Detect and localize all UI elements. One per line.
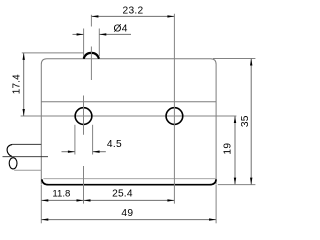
dimension 11.8 line: [41, 199, 83, 201]
hole H1 left: [75, 108, 92, 125]
dimension 25.4 line: [84, 199, 175, 201]
body inner horizontal line: [41, 101, 216, 103]
dimension d4 arrows: [73, 33, 84, 35]
dimension 35 line: [250, 59, 252, 185]
dimension 17.4 extension line top: [22, 52, 84, 54]
svg-text:Ø4: Ø4: [113, 24, 127, 35]
dimension 49 line: [41, 219, 216, 221]
svg-text:23.2: 23.2: [122, 6, 143, 17]
left pin top line: [12, 143, 41, 145]
hole H2 vertical extension line: [173, 14, 175, 204]
plunger button dome: [84, 53, 99, 59]
dimension 4.5 extension lines: [74, 125, 76, 155]
hole H1 vertical centerline: [83, 96, 85, 135]
dimension 19 line: [234, 116, 236, 185]
left pin bottom line: [14, 169, 41, 171]
hole H2 right: [166, 108, 183, 125]
left pin end cap arc: [7, 144, 12, 156]
hole centerline horizontal: [21, 115, 237, 117]
body outline: [41, 59, 216, 185]
svg-text:19: 19: [223, 143, 234, 155]
svg-text:25.4: 25.4: [112, 189, 133, 200]
dimension d4 extension lines: [83, 29, 85, 57]
svg-text:11.8: 11.8: [52, 189, 70, 200]
svg-text:4.5: 4.5: [107, 139, 122, 150]
svg-text:49: 49: [121, 208, 133, 219]
dimension 11.8 and 25.4 extension lines: [40, 185, 42, 223]
left pin centerline: [3, 156, 49, 158]
svg-text:35: 35: [240, 115, 251, 127]
body bottom thick edge: [42, 179, 216, 184]
button centerline segments: [90, 15, 92, 27]
dimension 4.5 arrows: [62, 151, 75, 153]
body bottom seam line: [43, 178, 216, 180]
dimension 17.4 line: [23, 53, 25, 116]
left pin end ellipse: [9, 158, 17, 169]
dimension 35 extension line top: [213, 58, 255, 60]
dimension 35 extension line bottom: [218, 184, 256, 186]
dimension 23.2 line: [91, 15, 174, 17]
svg-text:17.4: 17.4: [12, 74, 23, 94]
dimension 49 extension line right: [215, 185, 217, 223]
